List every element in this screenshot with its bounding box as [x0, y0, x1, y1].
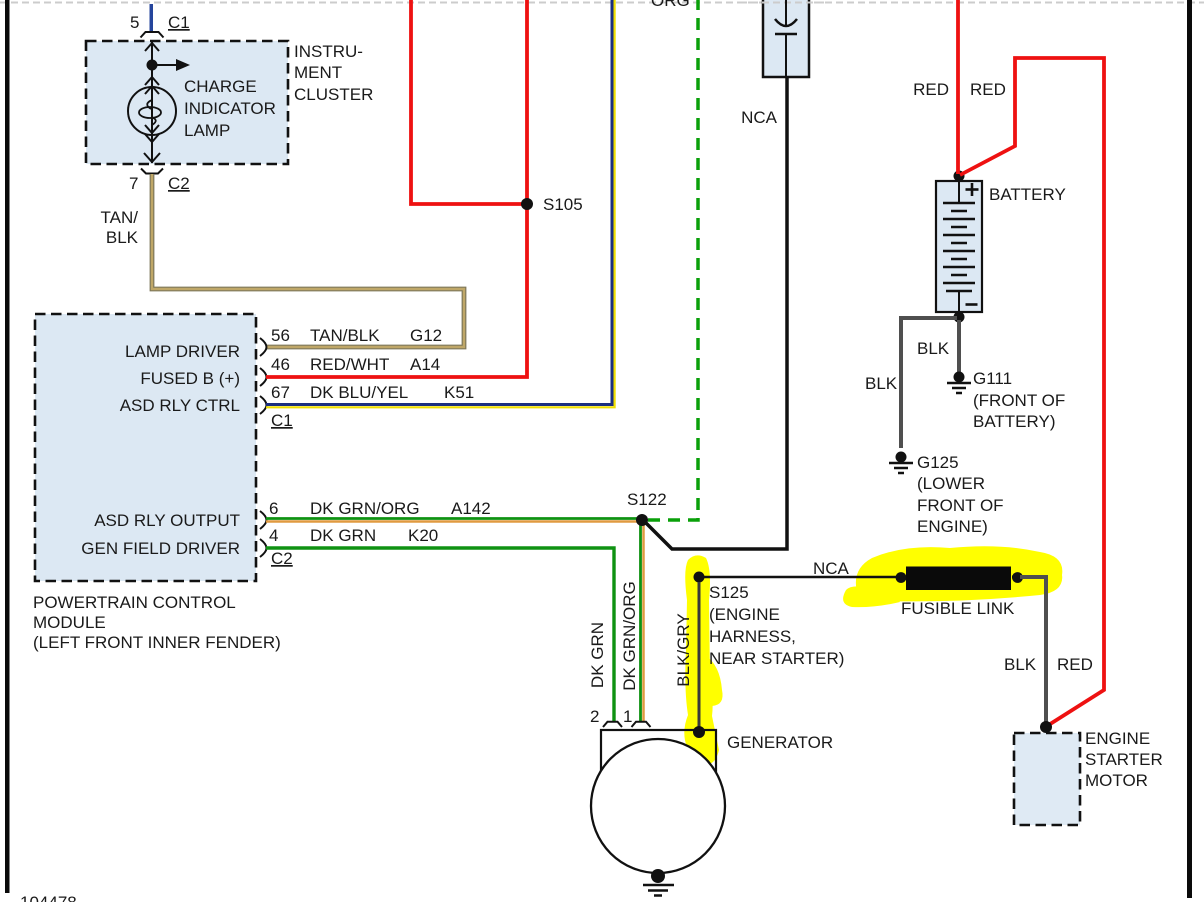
svg-text:104478: 104478 [20, 893, 77, 902]
svg-text:LAMP: LAMP [184, 121, 230, 140]
svg-text:(LOWER: (LOWER [917, 474, 985, 493]
S105 label [543, 195, 583, 214]
pin 5 label [130, 13, 139, 32]
svg-text:BLK/GRY: BLK/GRY [674, 613, 693, 686]
svg-text:S105: S105 [543, 195, 583, 214]
BLK/GRY label [674, 613, 693, 686]
svg-text:MENT: MENT [294, 63, 342, 82]
svg-text:C2: C2 [168, 174, 190, 193]
svg-text:GENERATOR: GENERATOR [727, 733, 833, 752]
right border frame [1187, 0, 1192, 898]
BLK label (G125 wire) [865, 374, 898, 393]
wire DK GRN/ORG from pin 6 to S122 and generator pin 1 [266, 519, 644, 722]
svg-text:RED/WHT: RED/WHT [310, 355, 389, 374]
radio noise suppressor (capacitor) box [740, 0, 830, 77]
svg-text:C1: C1 [271, 411, 293, 430]
node: junction dot with right arrow inside cluster [147, 59, 191, 71]
splice S105 [521, 198, 533, 210]
generator pin 2 cup [603, 722, 622, 727]
wire NCA from S125 to fusible link [703, 576, 898, 579]
svg-text:RED: RED [913, 80, 949, 99]
svg-text:RED: RED [1057, 655, 1093, 674]
wire BLK battery negative to G125 [901, 318, 957, 448]
NCA label (fusible wire) [813, 559, 850, 578]
generator body [591, 730, 725, 873]
svg-text:FRONT OF: FRONT OF [917, 496, 1004, 515]
wire: pin 5 dark blue from top [150, 4, 154, 31]
BLK label (starter) [1004, 655, 1037, 674]
svg-text:K51: K51 [444, 383, 474, 402]
PCM pin 67 cup [260, 396, 267, 414]
svg-text:GEN FIELD DRIVER: GEN FIELD DRIVER [81, 539, 240, 558]
PCM pin 4 cup [260, 539, 267, 557]
svg-text:56: 56 [271, 326, 290, 345]
connector C1 pin 5 cup [141, 32, 164, 38]
svg-text:ENGINE: ENGINE [1085, 729, 1150, 748]
svg-text:MODULE: MODULE [33, 613, 106, 632]
PCM caption [33, 593, 281, 652]
PCM pin function labels [81, 342, 240, 558]
PCM pin 46 cup [260, 368, 267, 386]
wire DK BLU/YEL from pin 67 [266, 0, 615, 407]
engine starter motor box [1014, 733, 1080, 825]
ground G111 [947, 372, 971, 394]
PCM box [35, 314, 256, 581]
generator pin numbers [590, 707, 632, 726]
svg-text:DK BLU/YEL: DK BLU/YEL [310, 383, 408, 402]
svg-text:A14: A14 [410, 355, 440, 374]
TAN/BLK wire label [101, 208, 139, 247]
highlighter mark over BLK/GRY wire [684, 555, 722, 764]
instrument cluster label [294, 42, 373, 104]
svg-text:LAMP DRIVER: LAMP DRIVER [125, 342, 240, 361]
svg-text:DK GRN: DK GRN [310, 526, 376, 545]
svg-text:(FRONT OF: (FRONT OF [973, 391, 1065, 410]
PCM pin 56 cup [260, 338, 267, 356]
wire BLK from fusible link to starter [1020, 577, 1046, 725]
highlighter mark over fusible link [843, 546, 1062, 607]
generator case ground [643, 869, 674, 896]
svg-text:67: 67 [271, 383, 290, 402]
svg-text:FUSIBLE LINK: FUSIBLE LINK [901, 599, 1015, 618]
svg-text:INSTRU-: INSTRU- [294, 42, 363, 61]
svg-text:ASD RLY CTRL: ASD RLY CTRL [120, 396, 240, 415]
RED label (left) [913, 80, 949, 99]
svg-text:C1: C1 [168, 13, 190, 32]
wire BLK battery negative to G111 [957, 320, 961, 373]
svg-text:BLK: BLK [106, 228, 139, 247]
connector C2 pin 7 cup [141, 169, 163, 174]
FUSIBLE LINK label [901, 599, 1015, 618]
svg-text:DK GRN/ORG: DK GRN/ORG [310, 499, 420, 518]
PCM pin 6 cup [260, 511, 267, 529]
ENGINE STARTER MOTOR label [1085, 729, 1163, 790]
S125 labels [709, 583, 844, 668]
svg-text:NCA: NCA [741, 108, 778, 127]
svg-text:RED: RED [970, 80, 1006, 99]
DK GRN label (rotated) [588, 622, 607, 688]
svg-text:G111: G111 [973, 369, 1012, 388]
svg-text:FUSED B (+): FUSED B (+) [140, 369, 240, 388]
svg-text:TAN/: TAN/ [101, 208, 139, 227]
svg-text:BLK: BLK [1004, 655, 1037, 674]
svg-text:BLK: BLK [865, 374, 898, 393]
charge indicator lamp label [184, 77, 276, 140]
wire DK GRN from pin 4 to generator pin 2 [266, 548, 614, 721]
pin 56 row labels [271, 326, 442, 345]
svg-text:A142: A142 [451, 499, 491, 518]
page top edge dotted line [0, 2, 1204, 4]
ground G125 [889, 452, 913, 474]
splice S122 [636, 514, 648, 526]
svg-text:DK GRN/ORG: DK GRN/ORG [620, 581, 639, 691]
wire: internal cluster conductor [144, 41, 160, 163]
svg-text:5: 5 [130, 13, 139, 32]
RED label (starter) [1057, 655, 1093, 674]
svg-text:POWERTRAIN CONTROL: POWERTRAIN CONTROL [33, 593, 236, 612]
svg-text:STARTER: STARTER [1085, 750, 1163, 769]
svg-text:G12: G12 [410, 326, 442, 345]
GENERATOR label [727, 733, 833, 752]
wire RED battery feed (left) [956, 0, 960, 174]
node: starter feed junction [1040, 721, 1052, 733]
svg-text:CHARGE: CHARGE [184, 77, 257, 96]
svg-text:ASD RLY OUTPUT: ASD RLY OUTPUT [94, 511, 240, 530]
G125 labels [917, 453, 1004, 536]
pin 7 label [129, 174, 138, 193]
svg-text:TAN/BLK: TAN/BLK [310, 326, 380, 345]
svg-text:K20: K20 [408, 526, 438, 545]
svg-text:S122: S122 [627, 490, 667, 509]
svg-text:G125: G125 [917, 453, 959, 472]
pin 6 row labels [269, 499, 491, 518]
svg-text:(LEFT FRONT INNER FENDER): (LEFT FRONT INNER FENDER) [33, 633, 281, 652]
svg-text:4: 4 [269, 526, 278, 545]
svg-text:NCA: NCA [813, 559, 850, 578]
svg-text:6: 6 [269, 499, 278, 518]
svg-text:46: 46 [271, 355, 290, 374]
node: generator BLK/GRY terminal [693, 726, 705, 738]
wire RED/WHT from pin 46 through S105 [266, 0, 527, 377]
svg-text:BATTERY): BATTERY) [973, 412, 1056, 431]
wire dashed DK GRN/ORG from S122 up to top [648, 0, 698, 520]
wire TAN/BLK from cluster to PCM pin 56 [152, 174, 464, 347]
pin 67 row labels [271, 383, 474, 402]
connector C2 label (PCM) [271, 549, 293, 568]
G111 labels [973, 369, 1065, 431]
svg-text:S125: S125 [709, 583, 749, 602]
wire BLK/GRY from S125 to generator [698, 582, 701, 728]
fusible link [896, 567, 1023, 591]
svg-text:HARNESS,: HARNESS, [709, 627, 796, 646]
svg-text:CLUSTER: CLUSTER [294, 85, 373, 104]
generator pin 1 cup [632, 722, 651, 727]
svg-text:(ENGINE: (ENGINE [709, 605, 780, 624]
RED label (right) [970, 80, 1006, 99]
NCA label (suppressor wire) [741, 108, 778, 127]
svg-text:BATTERY: BATTERY [989, 185, 1066, 204]
connector C1 label (PCM) [271, 411, 293, 430]
BLK label (G111 wire) [917, 339, 950, 358]
cut-off ORG label at top [651, 0, 690, 10]
battery [936, 171, 982, 323]
svg-text:7: 7 [129, 174, 138, 193]
left border frame [5, 0, 10, 893]
svg-text:ORG: ORG [651, 0, 690, 10]
connector C1 label (top) [168, 13, 190, 32]
document number [20, 893, 77, 902]
svg-text:2: 2 [590, 707, 599, 726]
svg-text:NEAR STARTER): NEAR STARTER) [709, 649, 844, 668]
svg-text:DK GRN: DK GRN [588, 622, 607, 688]
S122 label [627, 490, 667, 509]
pin 4 row labels [269, 526, 438, 545]
connector C2 label (top) [168, 174, 190, 193]
BATTERY label [989, 185, 1066, 204]
svg-text:BLK: BLK [917, 339, 950, 358]
black wire from S122 to suppressor [646, 62, 787, 549]
pin 46 row labels [271, 355, 440, 374]
splice S125 [694, 572, 705, 583]
svg-text:1: 1 [623, 707, 632, 726]
wire RED generator output [960, 58, 1104, 726]
svg-text:MOTOR: MOTOR [1085, 771, 1148, 790]
instrument cluster box [86, 41, 288, 164]
svg-text:ENGINE): ENGINE) [917, 517, 988, 536]
svg-text:C2: C2 [271, 549, 293, 568]
DK GRN/ORG label (rotated) [620, 581, 639, 691]
svg-text:INDICATOR: INDICATOR [184, 99, 276, 118]
charge indicator lamp [128, 87, 176, 135]
